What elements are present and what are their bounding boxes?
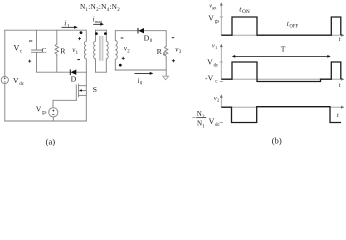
mosfet S source stub bbox=[79, 94, 87, 96]
svg-text:−: − bbox=[192, 114, 196, 122]
plot 1 waveform vgs bbox=[221, 17, 340, 35]
svg-text:D: D bbox=[144, 33, 150, 42]
dot core box right bbox=[104, 32, 107, 35]
current annotation i1 bbox=[62, 26, 78, 29]
wire top rail bbox=[5, 29, 87, 31]
svg-text:N: N bbox=[197, 110, 202, 118]
svg-text:N: N bbox=[197, 120, 202, 128]
transformer winding 1 (primary coil) bbox=[84, 30, 86, 72]
resistor R0 zigzag bbox=[165, 46, 168, 58]
wire bottom rail bbox=[5, 120, 87, 122]
svg-text:T: T bbox=[281, 45, 286, 54]
svg-text:V: V bbox=[207, 57, 213, 66]
transformer core box right winding bbox=[106, 30, 108, 72]
svg-text:D: D bbox=[71, 74, 77, 83]
v2 minus mark bbox=[121, 37, 124, 39]
resistor R bottom wire bbox=[56, 56, 58, 73]
dot winding 4 bbox=[119, 64, 122, 67]
clamp wire left of diode D bbox=[37, 71, 71, 73]
plot 2 waveform v1 bbox=[221, 62, 340, 82]
resistor R branch top wire bbox=[56, 30, 58, 44]
svg-text:(a): (a) bbox=[46, 136, 56, 146]
svg-text:dc: dc bbox=[215, 123, 221, 128]
transformer core box top bar bbox=[96, 29, 107, 31]
svg-text:(b): (b) bbox=[272, 136, 282, 146]
svg-text:1: 1 bbox=[215, 45, 217, 50]
plot 2 axes bbox=[220, 46, 343, 82]
wire left lower bbox=[4, 84, 6, 121]
mosfet S gate bar bbox=[75, 85, 77, 101]
gate wire to Vgs source bbox=[53, 100, 76, 107]
resistor R0 branch top wire bbox=[165, 31, 167, 47]
transformer core box bottom bar bbox=[96, 71, 107, 73]
svg-text:V: V bbox=[209, 117, 215, 126]
v3 minus mark bbox=[172, 37, 174, 39]
clamp wire right of diode D bbox=[76, 71, 86, 73]
capacitor C bottom wire bbox=[36, 52, 38, 72]
diode D0 bbox=[138, 28, 144, 33]
resistor R zigzag bbox=[55, 44, 58, 56]
svg-text:C: C bbox=[42, 46, 47, 55]
current annotation imag bbox=[93, 23, 104, 26]
svg-text:R: R bbox=[157, 47, 163, 56]
v2 plus mark bbox=[122, 57, 125, 60]
mosfet S arrow stub wire bbox=[82, 90, 87, 92]
svg-text:S: S bbox=[93, 85, 97, 94]
capacitor C branch top wire bbox=[36, 30, 38, 50]
plot 3 axes bbox=[220, 97, 343, 123]
v1 minus mark bbox=[77, 59, 80, 61]
drain node wire down to mosfet bbox=[85, 72, 87, 121]
resistor R0 bottom wire to ground bbox=[165, 58, 167, 76]
svg-text:i: i bbox=[64, 19, 66, 28]
svg-text:V: V bbox=[14, 44, 20, 53]
v3 plus mark bbox=[172, 59, 175, 62]
svg-text:V: V bbox=[36, 104, 42, 113]
wire secondary bottom rail bbox=[115, 69, 166, 71]
dot winding 1 bbox=[80, 31, 83, 34]
wire left upper bbox=[4, 30, 6, 76]
wire Vgs to bottom rail bbox=[52, 117, 54, 121]
source Vgs circle bbox=[49, 108, 58, 117]
mosfet S channel bar bbox=[78, 84, 80, 97]
svg-text:mag: mag bbox=[95, 19, 103, 24]
capacitor C plates bbox=[32, 50, 42, 52]
current annotation i0 bbox=[135, 72, 154, 75]
plot 1 axes bbox=[220, 5, 343, 36]
transformer core shading bbox=[99, 36, 103, 61]
wire secondary top rail left of D0 bbox=[115, 30, 138, 32]
diode D (clamp) bbox=[71, 70, 77, 75]
svg-text:V: V bbox=[13, 76, 19, 85]
dot core box left bbox=[95, 32, 98, 35]
v1 plus mark bbox=[78, 37, 81, 40]
svg-text:R: R bbox=[60, 46, 66, 55]
mosfet S drain stub bbox=[79, 85, 87, 87]
Vc plus mark bbox=[28, 60, 31, 63]
ground bbox=[163, 76, 169, 80]
source Vdc bbox=[1, 76, 8, 83]
wire secondary top rail right of D0 bbox=[144, 30, 167, 32]
period T arrow bbox=[232, 55, 331, 58]
svg-text:V: V bbox=[208, 14, 214, 23]
Vgs source plus minus bbox=[52, 110, 54, 115]
transformer winding 4 (secondary coil) bbox=[115, 31, 117, 70]
mosfet arrow head bbox=[79, 89, 82, 92]
svg-text:dc: dc bbox=[19, 82, 25, 87]
transformer core box left winding bbox=[94, 30, 96, 72]
svg-text:-V: -V bbox=[205, 74, 214, 83]
svg-text:OFF: OFF bbox=[290, 24, 299, 29]
svg-text:gs: gs bbox=[215, 20, 220, 25]
Vc minus mark bbox=[29, 40, 32, 42]
svg-text:gs: gs bbox=[212, 5, 216, 10]
svg-text:gs: gs bbox=[42, 110, 47, 115]
svg-text:2: 2 bbox=[217, 98, 219, 103]
svg-text:dc: dc bbox=[214, 63, 220, 68]
plot 3 waveform v2 bbox=[221, 107, 341, 123]
Vdc source plus minus bbox=[4, 77, 6, 82]
svg-text:ON: ON bbox=[242, 9, 250, 15]
